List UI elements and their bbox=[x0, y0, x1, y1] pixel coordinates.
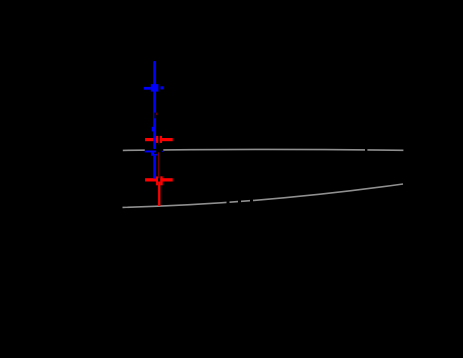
blue horizontal bar at crossing bbox=[145, 151, 156, 153]
notch in blue line bbox=[154, 113, 156, 119]
dash gaps in lower curve bbox=[227, 200, 230, 206]
gray upper curve bbox=[123, 148, 404, 151]
red lower bar right bbox=[160, 178, 172, 181]
blue dot right of crossing bbox=[161, 151, 164, 152]
blue square marker bbox=[151, 84, 159, 92]
blue dash right of marker bbox=[161, 86, 164, 89]
dark red dash upper bbox=[156, 113, 157, 116]
gap in upper curve at crossing bbox=[145, 147, 164, 154]
red upper cap left bbox=[156, 136, 158, 143]
gray lower curve bbox=[123, 184, 404, 207]
red upper bar left bbox=[145, 138, 158, 141]
red upper bar right bbox=[160, 138, 173, 141]
red lower bar left bbox=[145, 178, 158, 181]
red lower cap right bbox=[160, 176, 162, 185]
blue left tick bbox=[152, 127, 154, 132]
red lower cap left bbox=[156, 176, 158, 185]
blue vertical line lower segment bbox=[153, 156, 156, 179]
blue block (notched) at crossing bbox=[151, 152, 156, 155]
small gap in upper curve bbox=[365, 148, 367, 153]
red upper cap right bbox=[160, 136, 162, 143]
red vertical line to lower curve bbox=[158, 182, 160, 207]
dark red vertical connector bbox=[158, 152, 159, 178]
blue vertical line upper segment bbox=[153, 62, 156, 147]
dark red faint smear below upper caps bbox=[158, 136, 159, 145]
blue dash left of marker bbox=[144, 87, 151, 90]
blue small dash at crossing bbox=[156, 154, 157, 156]
